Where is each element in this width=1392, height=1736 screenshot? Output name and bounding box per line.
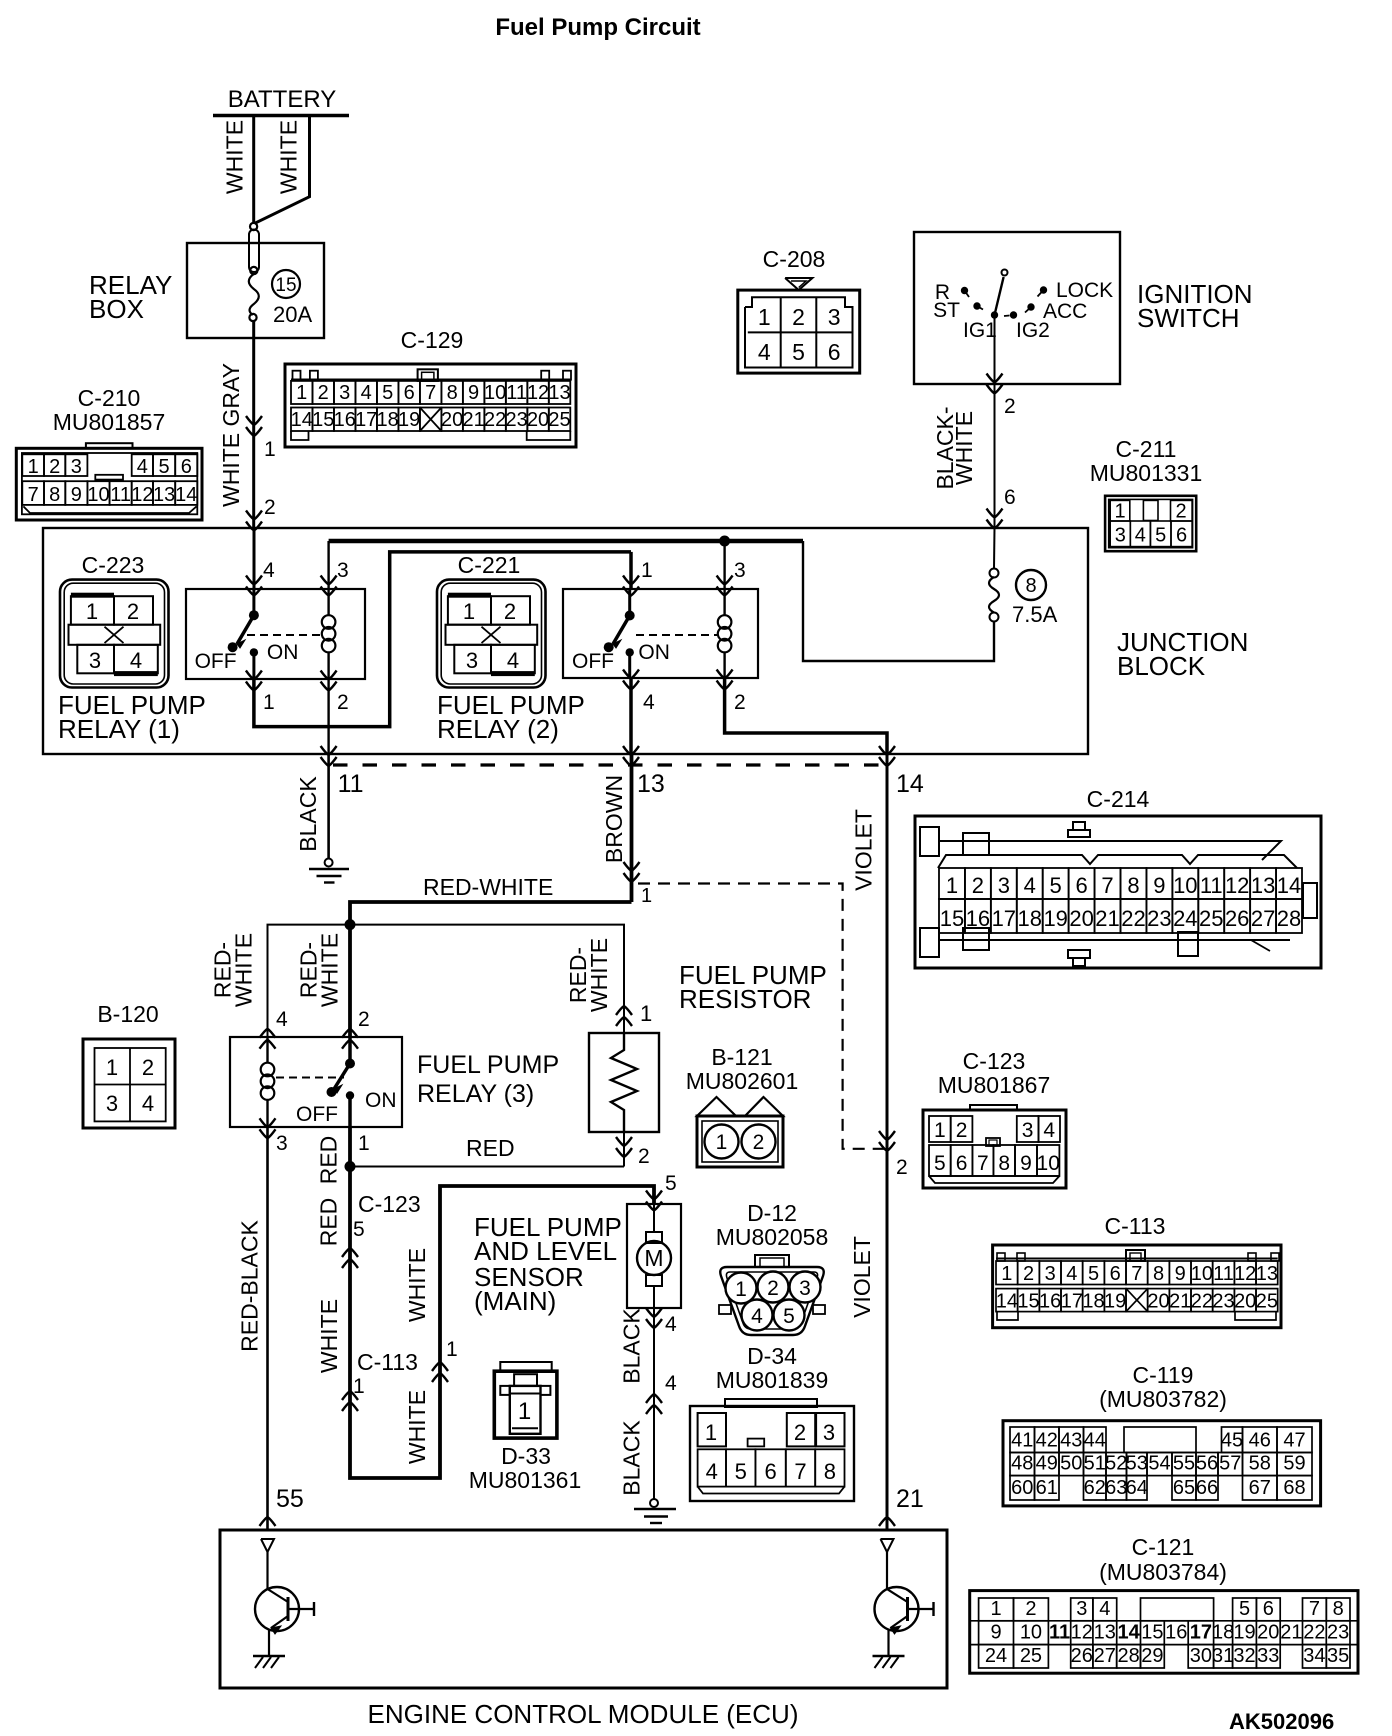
svg-text:4: 4 [1099, 1598, 1110, 1620]
svg-text:OFF: OFF [195, 650, 237, 673]
relay box [187, 243, 324, 338]
svg-text:1: 1 [758, 304, 771, 330]
svg-text:22: 22 [1121, 906, 1145, 931]
svg-text:B-121: B-121 [711, 1044, 772, 1070]
svg-text:2: 2 [956, 1119, 968, 1142]
svg-text:23: 23 [1327, 1622, 1349, 1644]
wire red-white main [350, 902, 632, 1037]
svg-text:22: 22 [1191, 1291, 1213, 1313]
svg-text:1: 1 [1114, 501, 1125, 523]
svg-text:1: 1 [446, 1338, 458, 1361]
svg-text:4: 4 [751, 1305, 763, 1328]
svg-text:11: 11 [1213, 1263, 1234, 1285]
svg-text:7: 7 [794, 1459, 806, 1484]
svg-text:8: 8 [1153, 1263, 1164, 1285]
svg-text:BLOCK: BLOCK [1117, 651, 1206, 681]
svg-text:C-210: C-210 [78, 385, 141, 411]
relay2 switch [628, 589, 631, 616]
svg-text:2: 2 [1025, 1598, 1036, 1620]
svg-text:WHITE: WHITE [317, 933, 343, 1007]
svg-text:4: 4 [706, 1459, 718, 1484]
svg-text:LOCK: LOCK [1056, 279, 1113, 302]
svg-text:33: 33 [1257, 1645, 1279, 1667]
svg-text:B-120: B-120 [97, 1001, 158, 1027]
svg-text:3: 3 [89, 648, 101, 673]
svg-text:1: 1 [640, 1001, 652, 1026]
svg-text:5: 5 [353, 1218, 365, 1241]
svg-text:14: 14 [996, 1291, 1018, 1313]
svg-text:14: 14 [175, 484, 197, 506]
svg-text:D-34: D-34 [747, 1343, 797, 1369]
svg-text:15: 15 [940, 906, 964, 931]
svg-text:5: 5 [1239, 1598, 1250, 1620]
svg-text:6: 6 [181, 456, 192, 478]
junction block [43, 528, 1088, 754]
relay3 switch [348, 1037, 352, 1064]
svg-text:2: 2 [318, 382, 329, 404]
svg-text:C-123: C-123 [358, 1191, 421, 1217]
svg-text:16: 16 [1039, 1291, 1061, 1313]
svg-text:32: 32 [1233, 1645, 1255, 1667]
svg-text:18: 18 [1212, 1622, 1234, 1644]
svg-text:1: 1 [705, 1420, 717, 1445]
svg-text:25: 25 [1256, 1291, 1278, 1313]
svg-text:4: 4 [130, 648, 142, 673]
svg-text:1: 1 [28, 456, 39, 478]
svg-text:21: 21 [1169, 1291, 1191, 1313]
wire black pump ground [653, 1308, 655, 1499]
svg-text:1: 1 [1001, 1263, 1012, 1285]
svg-text:9: 9 [1153, 873, 1165, 898]
svg-text:RED: RED [316, 1198, 342, 1247]
wire relay1 pin4 feed [253, 528, 256, 589]
svg-text:4: 4 [1066, 1263, 1077, 1285]
svg-text:RED-WHITE: RED-WHITE [423, 874, 553, 900]
wire relay2 pin1 [629, 552, 633, 589]
svg-text:MU801839: MU801839 [716, 1367, 829, 1393]
svg-text:3: 3 [734, 559, 746, 582]
svg-text:13: 13 [1251, 873, 1275, 898]
svg-text:C-214: C-214 [1087, 786, 1150, 812]
svg-text:11: 11 [506, 382, 527, 404]
svg-text:44: 44 [1084, 1430, 1106, 1452]
svg-text:55: 55 [276, 1485, 304, 1513]
svg-text:7: 7 [1309, 1598, 1320, 1620]
svg-text:28: 28 [1277, 906, 1301, 931]
connector crossing C-129 pin 1 [246, 416, 262, 425]
svg-text:13: 13 [1094, 1622, 1116, 1644]
svg-text:11: 11 [110, 484, 131, 506]
svg-text:20: 20 [1234, 1291, 1256, 1313]
svg-text:19: 19 [1043, 906, 1067, 931]
svg-text:56: 56 [1196, 1453, 1218, 1475]
svg-text:41: 41 [1011, 1430, 1033, 1452]
svg-text:20: 20 [1069, 906, 1093, 931]
connector crossing C-113 pin 1 left [342, 1391, 358, 1400]
svg-text:2: 2 [734, 691, 746, 714]
ground Q1 [253, 1655, 285, 1657]
svg-text:1: 1 [990, 1598, 1001, 1620]
svg-text:1: 1 [264, 438, 276, 461]
svg-text:6: 6 [764, 1459, 776, 1484]
svg-text:50: 50 [1060, 1453, 1082, 1475]
svg-text:64: 64 [1126, 1477, 1148, 1499]
svg-text:ACC: ACC [1043, 300, 1087, 323]
ignition lever [995, 277, 1004, 315]
relay2 switch output [623, 670, 639, 679]
svg-text:3: 3 [1022, 1119, 1034, 1142]
svg-text:8: 8 [1025, 575, 1036, 597]
svg-text:WHITE: WHITE [951, 411, 977, 485]
svg-text:3: 3 [106, 1091, 118, 1116]
svg-text:6: 6 [828, 339, 841, 365]
svg-text:10: 10 [1173, 873, 1197, 898]
svg-text:3: 3 [828, 304, 841, 330]
svg-text:3: 3 [276, 1132, 288, 1155]
svg-text:15: 15 [1017, 1291, 1039, 1313]
svg-text:8: 8 [1127, 873, 1139, 898]
svg-text:FUEL PUMP: FUEL PUMP [417, 1051, 559, 1079]
svg-text:25: 25 [1199, 906, 1223, 931]
svg-text:10: 10 [484, 382, 506, 404]
svg-text:13: 13 [153, 484, 175, 506]
svg-text:C-223: C-223 [82, 552, 145, 578]
relay3 dashed link [276, 1077, 344, 1079]
svg-text:6: 6 [1176, 525, 1187, 547]
svg-text:5: 5 [1050, 873, 1062, 898]
svg-text:20: 20 [1147, 1291, 1169, 1313]
svg-text:4: 4 [263, 559, 275, 582]
svg-text:60: 60 [1011, 1477, 1033, 1499]
svg-text:24: 24 [1173, 906, 1197, 931]
svg-text:2: 2 [1175, 501, 1186, 523]
svg-text:5: 5 [792, 339, 805, 365]
svg-text:66: 66 [1196, 1477, 1218, 1499]
svg-text:6: 6 [1110, 1263, 1121, 1285]
svg-text:2: 2 [753, 1131, 765, 1154]
svg-text:5: 5 [1155, 525, 1166, 547]
svg-text:RED: RED [316, 1136, 342, 1185]
fuse 8 7.5A [990, 613, 999, 622]
svg-text:1: 1 [641, 885, 652, 907]
svg-text:3: 3 [1115, 525, 1126, 547]
ignition switch [914, 232, 1120, 384]
svg-text:1: 1 [263, 691, 275, 714]
svg-text:4: 4 [507, 648, 519, 673]
svg-text:MU802601: MU802601 [686, 1068, 799, 1094]
svg-text:WHITE GRAY: WHITE GRAY [218, 363, 244, 507]
svg-text:MU801867: MU801867 [938, 1072, 1051, 1098]
svg-text:6: 6 [1075, 873, 1087, 898]
svg-text:4: 4 [276, 1008, 288, 1031]
svg-text:SWITCH: SWITCH [1137, 303, 1240, 333]
svg-text:1: 1 [716, 1131, 728, 1154]
svg-text:9: 9 [990, 1622, 1001, 1644]
wire red [350, 1166, 624, 1168]
svg-text:26: 26 [1071, 1645, 1093, 1667]
svg-text:RED-BLACK: RED-BLACK [237, 1220, 263, 1352]
svg-text:9: 9 [71, 484, 82, 506]
svg-text:25: 25 [548, 409, 570, 431]
wire battery white right [255, 115, 310, 223]
svg-text:23: 23 [1212, 1291, 1234, 1313]
svg-text:1: 1 [86, 599, 98, 624]
svg-text:1: 1 [358, 1132, 370, 1155]
node red [345, 1161, 356, 1172]
svg-text:52: 52 [1105, 1453, 1127, 1475]
svg-text:6: 6 [404, 382, 415, 404]
svg-text:10: 10 [1037, 1152, 1060, 1175]
svg-text:65: 65 [1173, 1477, 1195, 1499]
svg-text:(MAIN): (MAIN) [474, 1286, 556, 1316]
connector crossing C-113 pin 1 right [432, 1362, 448, 1371]
fusible link 15 20A [250, 223, 257, 230]
transistor Q1 [261, 1539, 274, 1552]
svg-text:M: M [644, 1245, 663, 1271]
engine control module box [220, 1530, 947, 1688]
svg-text:C-211: C-211 [1116, 436, 1177, 462]
svg-text:53: 53 [1126, 1453, 1148, 1475]
svg-text:ST: ST [933, 299, 960, 322]
svg-text:2: 2 [972, 873, 984, 898]
svg-text:63: 63 [1105, 1477, 1127, 1499]
svg-text:1: 1 [735, 1278, 747, 1301]
wire white-gray [252, 321, 255, 528]
connector D-33 MU801361 [500, 1362, 551, 1371]
svg-text:C-113: C-113 [357, 1349, 418, 1375]
svg-text:5: 5 [382, 382, 393, 404]
svg-text:7.5A: 7.5A [1012, 602, 1058, 627]
relay2 coil return to violet [717, 670, 733, 679]
svg-text:ON: ON [267, 641, 299, 664]
wire red-white thin branch [268, 925, 625, 1037]
wire white pump feed [350, 1167, 654, 1479]
svg-text:14: 14 [291, 409, 313, 431]
svg-text:45: 45 [1221, 1430, 1243, 1452]
svg-text:4: 4 [758, 339, 771, 365]
node red-white [345, 919, 356, 930]
svg-text:4: 4 [361, 382, 372, 404]
ground relay1 [325, 859, 333, 867]
svg-text:1: 1 [641, 559, 653, 582]
svg-text:54: 54 [1148, 1453, 1170, 1475]
svg-text:5: 5 [1088, 1263, 1099, 1285]
svg-text:2: 2 [1023, 1263, 1034, 1285]
svg-text:20: 20 [441, 409, 463, 431]
ground fuel pump [650, 1499, 658, 1507]
svg-text:49: 49 [1036, 1453, 1058, 1475]
svg-text:6: 6 [1263, 1598, 1274, 1620]
svg-text:2: 2 [638, 1145, 650, 1168]
svg-text:19: 19 [1104, 1291, 1126, 1313]
relay1 switch output path [246, 671, 262, 680]
svg-text:C-119: C-119 [1133, 1362, 1194, 1388]
svg-text:WHITE: WHITE [276, 120, 302, 194]
connector crossing C-123 pin 5 [342, 1248, 358, 1257]
svg-text:14: 14 [1277, 873, 1301, 898]
svg-text:1: 1 [296, 382, 307, 404]
ignition contacts [961, 287, 968, 294]
svg-text:BOX: BOX [89, 294, 144, 324]
svg-text:MU801331: MU801331 [1090, 460, 1203, 486]
wire violet [886, 754, 889, 1530]
svg-text:11: 11 [338, 770, 364, 798]
svg-text:7: 7 [1101, 873, 1113, 898]
svg-text:IG1: IG1 [963, 319, 997, 342]
svg-text:D-33: D-33 [501, 1443, 551, 1469]
relay1 coil return [321, 671, 337, 680]
svg-text:68: 68 [1283, 1477, 1305, 1499]
svg-text:24: 24 [985, 1645, 1007, 1667]
svg-text:5: 5 [783, 1305, 795, 1328]
relay1 switch [252, 589, 255, 615]
svg-text:22: 22 [1303, 1622, 1325, 1644]
svg-text:21: 21 [896, 1485, 924, 1513]
connector crossing C-211 pin 6 [987, 509, 1003, 518]
svg-text:17: 17 [1061, 1291, 1083, 1313]
svg-text:29: 29 [1141, 1645, 1163, 1667]
svg-text:8: 8 [998, 1152, 1010, 1175]
svg-text:19: 19 [1233, 1622, 1255, 1644]
svg-text:C-208: C-208 [763, 246, 826, 272]
svg-text:5: 5 [934, 1152, 946, 1175]
svg-text:3: 3 [1076, 1598, 1087, 1620]
svg-text:ENGINE CONTROL MODULE (ECU): ENGINE CONTROL MODULE (ECU) [368, 1699, 799, 1729]
wire battery white left [252, 115, 255, 224]
svg-text:3: 3 [339, 382, 350, 404]
svg-text:4: 4 [665, 1313, 677, 1336]
fuel pump relay 3 box [230, 1037, 402, 1127]
svg-text:8: 8 [447, 382, 458, 404]
svg-text:19: 19 [398, 409, 420, 431]
svg-text:14: 14 [896, 770, 924, 798]
wire bus to fuse 8 [803, 541, 994, 661]
svg-text:2: 2 [767, 1277, 779, 1300]
svg-text:MU801857: MU801857 [53, 409, 166, 435]
svg-text:27: 27 [1094, 1645, 1116, 1667]
svg-text:21: 21 [462, 409, 484, 431]
svg-text:WHITE: WHITE [222, 120, 248, 194]
svg-text:4: 4 [1135, 525, 1146, 547]
svg-text:3: 3 [998, 873, 1010, 898]
svg-text:18: 18 [1018, 906, 1042, 931]
svg-text:9: 9 [1175, 1263, 1186, 1285]
svg-text:13: 13 [548, 382, 570, 404]
relay2 dashed link [636, 634, 717, 636]
svg-text:(MU803784): (MU803784) [1099, 1559, 1227, 1585]
svg-text:12: 12 [1225, 873, 1249, 898]
svg-text:8: 8 [824, 1459, 836, 1484]
svg-text:12: 12 [527, 382, 549, 404]
svg-text:WHITE: WHITE [316, 1299, 342, 1373]
svg-text:3: 3 [71, 456, 82, 478]
svg-text:20A: 20A [273, 302, 312, 327]
fuel pump resistor [616, 1006, 632, 1015]
svg-text:C-129: C-129 [401, 327, 464, 353]
svg-text:42: 42 [1036, 1430, 1058, 1452]
svg-text:14: 14 [1117, 1622, 1140, 1644]
relay3 coil return red-black [260, 1118, 276, 1127]
svg-text:18: 18 [1082, 1291, 1104, 1313]
svg-text:D-12: D-12 [747, 1200, 797, 1226]
svg-text:C-113: C-113 [1105, 1213, 1166, 1239]
svg-text:58: 58 [1249, 1453, 1271, 1475]
transistor Q2 [881, 1539, 894, 1552]
svg-text:22: 22 [484, 409, 506, 431]
svg-text:7: 7 [1131, 1263, 1142, 1285]
svg-text:28: 28 [1117, 1645, 1139, 1667]
fuel pump relay 2 box [563, 589, 758, 678]
svg-text:ON: ON [638, 641, 670, 664]
svg-text:21: 21 [1280, 1622, 1302, 1644]
svg-text:1: 1 [518, 1398, 531, 1425]
svg-text:61: 61 [1036, 1477, 1058, 1499]
svg-text:RELAY (2): RELAY (2) [437, 714, 559, 744]
svg-text:43: 43 [1060, 1430, 1082, 1452]
svg-text:2: 2 [337, 691, 349, 714]
svg-text:MU802058: MU802058 [716, 1224, 829, 1250]
svg-text:9: 9 [1020, 1152, 1032, 1175]
svg-text:WHITE: WHITE [404, 1248, 430, 1322]
svg-text:10: 10 [87, 484, 109, 506]
svg-text:RED: RED [466, 1135, 515, 1161]
svg-text:16: 16 [334, 409, 356, 431]
svg-text:67: 67 [1249, 1477, 1271, 1499]
svg-text:3: 3 [1045, 1263, 1056, 1285]
svg-text:BLACK: BLACK [295, 776, 321, 852]
svg-text:18: 18 [377, 409, 399, 431]
svg-text:8: 8 [1333, 1598, 1344, 1620]
svg-text:VIOLET: VIOLET [851, 809, 877, 891]
svg-text:AK502096: AK502096 [1229, 1709, 1334, 1734]
svg-text:20: 20 [1257, 1622, 1279, 1644]
svg-text:15: 15 [312, 409, 334, 431]
svg-text:2: 2 [142, 1055, 154, 1080]
svg-text:59: 59 [1283, 1453, 1305, 1475]
svg-text:4: 4 [1043, 1119, 1055, 1142]
svg-text:26: 26 [1225, 906, 1249, 931]
svg-text:WHITE: WHITE [404, 1390, 430, 1464]
svg-text:1: 1 [946, 873, 958, 898]
svg-text:4: 4 [1024, 873, 1036, 898]
svg-text:2: 2 [792, 304, 805, 330]
svg-text:4: 4 [142, 1091, 154, 1116]
svg-text:1: 1 [106, 1055, 118, 1080]
svg-text:7: 7 [977, 1152, 989, 1175]
svg-text:WHITE: WHITE [231, 933, 257, 1007]
ground Q2 [873, 1655, 905, 1657]
svg-text:17: 17 [1190, 1622, 1212, 1644]
svg-text:15: 15 [275, 275, 296, 296]
svg-text:(MU803782): (MU803782) [1099, 1386, 1227, 1412]
svg-text:55: 55 [1173, 1453, 1195, 1475]
svg-text:10: 10 [1191, 1263, 1213, 1285]
wire brown [630, 754, 634, 902]
svg-text:ON: ON [365, 1089, 397, 1112]
connector crossing C-208 pin 2 [987, 374, 1003, 383]
svg-text:48: 48 [1011, 1453, 1033, 1475]
relay2 coil [723, 589, 725, 616]
svg-text:7: 7 [425, 382, 436, 404]
svg-text:9: 9 [468, 382, 479, 404]
svg-text:12: 12 [1071, 1622, 1093, 1644]
svg-text:2: 2 [127, 599, 139, 624]
svg-text:3: 3 [466, 648, 478, 673]
svg-text:5: 5 [665, 1172, 677, 1195]
wire black to ground [327, 754, 330, 859]
svg-text:51: 51 [1084, 1453, 1106, 1475]
svg-text:4: 4 [665, 1372, 677, 1395]
